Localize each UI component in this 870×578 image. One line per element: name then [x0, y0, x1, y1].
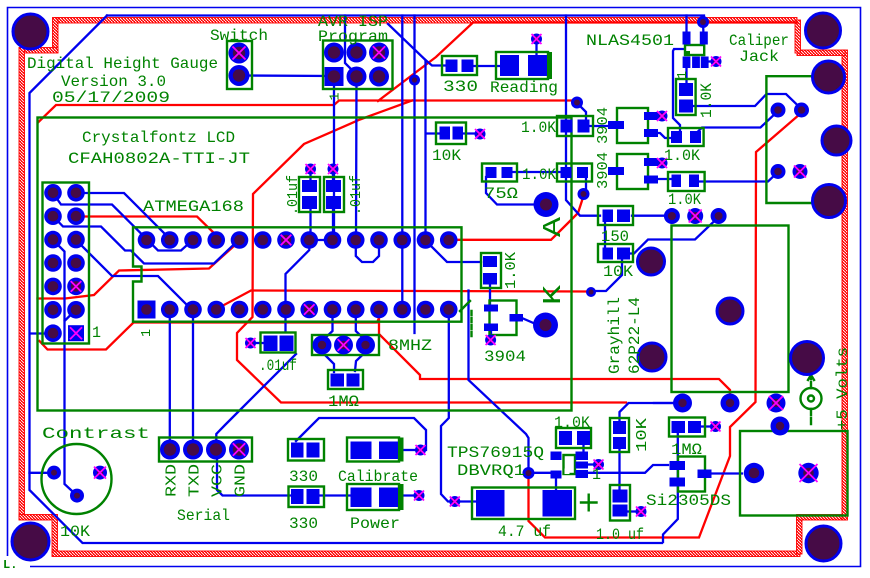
wire blue diag to serial vcc [216, 354, 296, 447]
wire red horizontal mid [217, 291, 590, 310]
wire red under socket [40, 311, 380, 350]
wire blue TPS out to gate [586, 465, 668, 473]
svg-text:3904: 3904 [595, 152, 612, 189]
wire red diag to top band [378, 23, 797, 102]
svg-text:DBVRQ1: DBVRQ1 [457, 462, 525, 480]
wire blue 330 to reading LED [470, 65, 502, 67]
socket bottom pin 9 [347, 301, 365, 319]
transistor Si2305 pads [670, 461, 686, 470]
LCD header pin R6 [67, 301, 85, 319]
via reading X [531, 34, 542, 45]
crystal pad gnd [334, 336, 353, 355]
via mid [586, 287, 596, 297]
capacitor .01uf b outline [324, 177, 344, 212]
wire blue TPS pin stub via [588, 463, 595, 465]
SMD pads [264, 32, 712, 517]
svg-text:Reading: Reading [490, 79, 558, 97]
wire blue cap verticals [309, 172, 311, 180]
LCD header pin L2 [44, 207, 62, 225]
resistor 150 outline [598, 206, 633, 225]
wire blue ISP top stub [345, 16, 357, 76]
wire blue vert x415 [413, 16, 415, 334]
wire blue TPS via to pad [530, 472, 553, 474]
svg-text:Switch: Switch [210, 27, 268, 45]
LCD header pin L5 [44, 278, 62, 296]
via tps out [523, 467, 535, 479]
LCD module outline [38, 118, 572, 411]
LCD header pin R5 [67, 278, 85, 296]
LCD header J1 outline [43, 183, 90, 344]
mounting hole bottom-right [806, 526, 841, 561]
via pow X [414, 490, 425, 501]
wire blue reading via stub [535, 43, 537, 57]
wire blue LCD pin to socket pin5 [53, 216, 238, 263]
resistor 10Kv outline [610, 418, 629, 452]
socket bottom pin 4 [231, 301, 249, 319]
socket bottom pin 7 [300, 301, 318, 319]
transistor Q2 outline [617, 108, 648, 143]
capacitor .01uf c pads [264, 336, 278, 352]
wire blue switch to ISP [239, 74, 332, 77]
wire blue vert x402 [401, 16, 403, 309]
svg-text:Si2305DS: Si2305DS [646, 492, 731, 510]
pad row a3 [711, 208, 727, 224]
NLAS4501 pads [683, 32, 691, 45]
wire blue NLAS pin3 stub [708, 60, 713, 62]
wire blue 1.0Kd to Q1 [489, 283, 491, 306]
via top right [697, 16, 709, 28]
wire red LCD to socket pin4 [76, 217, 216, 240]
svg-text:+5 Volts: +5 Volts [834, 347, 852, 430]
transistor Q2 pads [608, 121, 624, 129]
wire blue diag to x425 [388, 24, 426, 238]
power supply symbol [801, 375, 822, 424]
svg-text:.01uf: .01uf [285, 175, 302, 215]
wire blue LCD pin1 link [53, 193, 192, 251]
wire blue pads row stub [654, 402, 678, 404]
transistor Q1 3904 outline [490, 301, 517, 336]
wire blue power led via stub [400, 494, 416, 496]
wire blue 1Mohm r3 stub [650, 162, 658, 164]
svg-text:8MHZ: 8MHZ [388, 337, 432, 355]
wire blue 75ohm to A via [486, 177, 540, 205]
LED Reading outline [496, 52, 548, 79]
via caliper 1 [771, 103, 786, 118]
svg-text:Power: Power [350, 515, 400, 533]
pad conn b1 [673, 394, 692, 413]
contrast pad 2 [70, 489, 84, 503]
serial pad VCC [206, 440, 226, 460]
svg-text:1.0K: 1.0K [698, 83, 716, 118]
crystal 8MHZ outline [314, 336, 374, 354]
transistor Si2305 outline [678, 457, 705, 492]
via tps X [593, 459, 604, 470]
socket top pin 6 [277, 231, 295, 249]
wire blue NLAS pin4 via [702, 22, 705, 35]
socket bottom pin 12 [417, 301, 435, 319]
pad conn b3 [767, 394, 786, 413]
via cal X [415, 445, 426, 456]
socket top pin 7 [300, 231, 318, 249]
mounting hole top-left [13, 14, 48, 49]
resistor 75ohm pads [486, 167, 497, 178]
wire blue 1.0uf via stub [627, 510, 637, 512]
svg-text:1.0K: 1.0K [521, 119, 556, 137]
switch pad 1 [229, 43, 250, 64]
socket top pin 5 [254, 231, 272, 249]
mounting hole right 3 [813, 185, 846, 218]
resistor 150 pads [603, 210, 614, 223]
wire blue top bus [107, 14, 704, 16]
wire blue vert x566 to 150 [566, 16, 600, 216]
capacitor 4.7uf pads [476, 490, 505, 517]
wire blue 1.0K vert to via2 [687, 94, 802, 109]
svg-text:1: 1 [592, 466, 601, 484]
green silkscreen outlines [38, 41, 848, 521]
resistor 330b2 outline [289, 487, 325, 508]
capacitor .01uf b pads [326, 180, 341, 192]
svg-text:A: A [538, 216, 568, 237]
mounting hole mid 2 [638, 343, 666, 371]
resistor 1.0Kr1 outline [668, 128, 704, 146]
mounting hole right 4 [791, 342, 824, 375]
svg-text:TXD: TXD [187, 464, 204, 497]
ISP pad MISO [324, 43, 344, 63]
resistor 330b1 outline [288, 439, 324, 461]
resistor 1.0Kd pads [483, 256, 497, 267]
socket top pin 2 [184, 231, 202, 249]
wire blue Q2 to r1 [652, 133, 671, 138]
wire blue left bus [30, 16, 663, 544]
socket bottom pin 3 [207, 301, 225, 319]
resistor 10Kv pads [613, 421, 626, 434]
via nlas X [711, 56, 722, 67]
resistor 75ohm outline [482, 164, 517, 182]
capacitor 1.0uf pads [613, 490, 628, 503]
ISP pad GND [369, 67, 389, 87]
svg-text:Jack: Jack [739, 48, 779, 66]
wire blue 1.0K to via [585, 178, 587, 194]
via 10k X [475, 129, 486, 140]
socket top pin 11 [393, 231, 411, 249]
wire blue 1.0K to Q2 [584, 125, 608, 127]
caliper jack outline [766, 76, 814, 203]
contrast pad 1 [47, 466, 61, 480]
pad power minus [798, 463, 818, 483]
wire blue NLAS left loop [673, 49, 684, 133]
svg-text:1MΩ: 1MΩ [328, 393, 359, 411]
wire blue socket dip link [356, 244, 379, 262]
regulator TPS pads [551, 452, 562, 461]
capacitor 1.0uf outline [610, 485, 630, 521]
LCD header pin L1 [44, 184, 62, 202]
svg-text:1.0K: 1.0K [668, 191, 701, 209]
svg-text:CFAH0802A-TTI-JT: CFAH0802A-TTI-JT [68, 150, 250, 168]
svg-text:3904: 3904 [484, 348, 526, 366]
serial pad TXD [183, 440, 203, 460]
socket pin 1 square [138, 301, 156, 319]
resistor 330b1 pads [291, 443, 304, 458]
socket bottom pin 1 [161, 301, 179, 319]
wire blue xtal right up [356, 311, 366, 342]
wire red main right loop [529, 114, 801, 538]
ISP pad SCK [347, 43, 367, 63]
wire red LCD to socket pin5 [38, 241, 240, 299]
wire blue diag to TPS via [469, 291, 529, 471]
svg-text:1: 1 [139, 329, 155, 337]
LCD header pin L6 [44, 301, 62, 319]
socket top pin 3 [207, 231, 225, 249]
ISP pad RESET [369, 43, 389, 63]
resistor 1.0Kr2 pads [672, 175, 682, 188]
mounting hole top-right [806, 13, 841, 48]
resistor 10Kc pads [603, 248, 614, 260]
resistor 1.0Ke pads [559, 431, 572, 445]
contrast pot outline [42, 444, 112, 514]
svg-text:Digital Height Gauge: Digital Height Gauge [27, 55, 218, 73]
svg-text:330: 330 [289, 468, 318, 486]
regulator TPS body outline [564, 455, 576, 474]
svg-text:1: 1 [92, 324, 101, 342]
wire blue Q2 stub via [652, 115, 659, 117]
via isp net [409, 75, 420, 86]
socket top pin 0 [138, 231, 156, 249]
resistor R330a pads [446, 60, 458, 73]
LED Calibrate pads [351, 442, 372, 460]
socket top pin 12 [417, 231, 435, 249]
wire red socket pin28 to A via [452, 196, 584, 240]
wire blue socket to serial rxd [169, 312, 171, 447]
transistor Q1 pads [484, 305, 498, 312]
LCD header pin R2 [67, 207, 85, 225]
resistor 10Kb pads [440, 127, 451, 140]
svg-text:K: K [538, 284, 568, 305]
switch S1 outline [227, 41, 252, 89]
wire blue LCD pin5L down [53, 240, 65, 320]
svg-text:1: 1 [328, 93, 344, 101]
resistor R330a outline [442, 56, 477, 75]
svg-text:L.: L. [3, 558, 17, 572]
wire blue 4.7uf via stub [458, 500, 478, 502]
wire blue cap to socket b [332, 210, 334, 238]
power connector outline [740, 431, 848, 516]
via 1M X [710, 421, 721, 432]
via cap c X [245, 338, 256, 349]
LCD header pin R1 [67, 184, 85, 202]
wire blue 150-10K link [604, 222, 606, 247]
ATMEGA168 socket outline [133, 227, 462, 321]
plus sign 4.7uf [581, 495, 597, 511]
via reading net [571, 97, 583, 109]
AVR ISP header outline [323, 41, 393, 90]
ISP pad MOSI [347, 67, 367, 87]
LCD header pin L3 [44, 231, 62, 249]
svg-text:1.0K: 1.0K [664, 147, 700, 165]
wire blue TPS to 4.7uf right [555, 478, 557, 489]
contrast pad 3 [93, 466, 107, 480]
transistor Q3 outline [617, 154, 648, 189]
resistor 1Mohm a pads [331, 374, 345, 387]
wire blue 1.0K to TPS [582, 445, 584, 453]
wire blue NLAS pin5 up [685, 16, 687, 36]
wire blue cap to socket a [309, 210, 311, 238]
LCD header pin R4 [67, 254, 85, 272]
via 4.7uf X [449, 496, 460, 507]
svg-text:RXD: RXD [164, 464, 181, 497]
pad row a2 [687, 208, 703, 224]
svg-text:Grayhill: Grayhill [606, 297, 624, 374]
svg-text:Contrast: Contrast [42, 425, 150, 443]
svg-text:10K: 10K [634, 418, 651, 452]
mounting hole right 2 [822, 126, 851, 155]
crystal pad 1 [313, 336, 332, 355]
wire blue socket gnd link [311, 239, 334, 241]
svg-text:150: 150 [601, 228, 629, 246]
wire blue cap vertical b [332, 172, 334, 180]
svg-text:10K: 10K [432, 147, 461, 165]
wire blue LCD pin2 to socket [76, 193, 170, 239]
via q2 X [657, 111, 668, 122]
svg-text:62P22-L4: 62P22-L4 [626, 297, 644, 374]
wire blue Q3 to r2 [652, 178, 672, 180]
capacitor .01uf c outline [261, 333, 296, 353]
wire blue 10Kv to 1.0uf [618, 446, 620, 492]
via 1uf X [636, 506, 647, 517]
LCD header pin 1 square [68, 325, 84, 341]
mounting hole mid 1 [638, 248, 665, 275]
wire blue NLAS pin1 down [685, 62, 687, 85]
wire blue cap via stub [254, 342, 264, 344]
serial pad RXD [160, 440, 180, 460]
switch pad 2 [229, 65, 250, 86]
svg-text:GND: GND [233, 464, 250, 497]
svg-text:330: 330 [443, 78, 478, 96]
LED Power outline [347, 484, 399, 510]
wire blue Q1 emitter via [490, 330, 492, 338]
wire blue cap chain [286, 244, 310, 332]
socket bottom pin 5 [254, 301, 272, 319]
socket bottom pin 6 [277, 301, 295, 319]
via q net [578, 188, 590, 200]
svg-text:TPS76915Q: TPS76915Q [447, 444, 544, 462]
through-hole pads and vias [44, 16, 819, 517]
wire blue q2 via stub2 [650, 115, 656, 117]
wire blue pad3 to 10K [630, 217, 719, 254]
wire red top-left to reading area [39, 101, 578, 123]
svg-text:1.0K: 1.0K [503, 252, 520, 289]
wire blue contrast left stub [30, 472, 53, 474]
wire blue 1Mohm via stub [700, 425, 711, 427]
wire blue Q1 to K via [522, 318, 544, 325]
socket top pin 13 [440, 231, 458, 249]
LED Power pads [351, 488, 372, 508]
capacitor 4.7uf outline [472, 488, 575, 520]
Grayhill encoder outline [672, 226, 789, 393]
mounting hole bottom-left [12, 523, 49, 560]
svg-text:VCC: VCC [210, 464, 227, 497]
wire blue socket to serial txd [192, 312, 194, 447]
svg-text:Program: Program [318, 28, 388, 46]
svg-text:1.0K: 1.0K [554, 414, 590, 432]
wire blue calibrate via stub [404, 449, 417, 451]
ISP pad 1 square [325, 67, 344, 86]
wire blue 10Kv up to pad [620, 403, 679, 424]
wire blue socket to 1.0Kd [426, 241, 481, 262]
red traces (top copper) [38, 23, 801, 538]
resistor 10Kb outline [436, 123, 466, 145]
wire blue ISP pin3 down [355, 79, 358, 238]
LCD header pin R3 [67, 231, 85, 249]
socket top pin 9 [347, 231, 365, 249]
node A via [534, 192, 559, 217]
via cap a X [305, 164, 316, 175]
wire blue 330b to power led [319, 494, 352, 496]
NLAS4501 body outline [685, 45, 704, 55]
via caliper 2 [794, 103, 809, 118]
mounting hole right 1 [813, 61, 845, 93]
wire blue via to 10K [593, 257, 622, 291]
svg-text:Calibrate: Calibrate [338, 468, 418, 486]
socket corner mark [460, 301, 470, 311]
pad power plus [744, 463, 764, 483]
resistor 1.0Kc outline [557, 164, 592, 182]
resistor 1.0Kr2 outline [668, 172, 705, 191]
LCD header pin L4 [44, 254, 62, 272]
wire blue LCD pin stub [30, 332, 52, 334]
mounting hole grayhill [717, 298, 743, 324]
svg-text:ATMEGA168: ATMEGA168 [143, 198, 244, 216]
wire blue via1 to 1.0K r1 [697, 111, 778, 133]
svg-text:4.7 uf: 4.7 uf [498, 523, 551, 541]
pad conn b4 [771, 417, 790, 436]
wire blue xtal to 1Mohm right [355, 348, 366, 371]
socket top pin 1 [161, 231, 179, 249]
wire blue 150 to pads [632, 215, 668, 217]
dashed mark [470, 311, 472, 337]
wire blue 75ohm to 1.0K [512, 171, 561, 173]
node K via [533, 313, 558, 338]
resistor 1Mohm a outline [328, 370, 363, 389]
resistor 1.0Kc pads [561, 167, 572, 178]
via q3 X [657, 158, 668, 169]
wire blue pin28 to 4.7uf [441, 314, 452, 502]
wire blue ISP pin1 down [333, 79, 335, 238]
wire blue gnd serial to power [217, 457, 291, 496]
svg-text:1.0K: 1.0K [522, 166, 556, 184]
socket bottom pin 2 [184, 301, 202, 319]
LCD header pin left row7 [44, 324, 62, 342]
svg-text:330: 330 [289, 515, 318, 533]
wire blue calibrate chain [296, 418, 426, 450]
resistor 1.0Kb outline [557, 116, 593, 136]
resistor 1.0Ke outline [556, 428, 591, 448]
svg-text:3904: 3904 [595, 107, 612, 144]
socket bottom pin 13 [440, 301, 458, 319]
crystal pad 2 [356, 336, 375, 355]
svg-text:10K: 10K [60, 523, 90, 541]
resistor 1.0Kb pads [561, 120, 573, 133]
LED Calibrate outline [347, 438, 399, 462]
socket top pin 10 [370, 231, 388, 249]
socket top pin 4 [231, 231, 249, 249]
capacitor .01uf a outline [299, 177, 320, 212]
socket top pin 8 [324, 231, 342, 249]
via q1 X [485, 335, 496, 346]
socket bottom pin 8 [324, 301, 342, 319]
via cap b X [328, 164, 339, 175]
resistor 10Kc outline [598, 244, 633, 262]
wire blue via to 1.0Kb [578, 104, 586, 120]
